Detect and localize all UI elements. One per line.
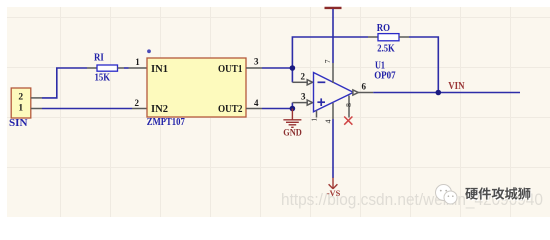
wire node B to pin3 jog — [291, 103, 293, 109]
svg-text:15K: 15K — [95, 73, 111, 84]
svg-text:8: 8 — [344, 103, 353, 107]
pin stub U1.6 output — [353, 90, 373, 95]
no-ERC marker X pin8 — [344, 117, 352, 125]
pin stub U1.3 — [292, 100, 312, 105]
svg-text:6: 6 — [362, 81, 367, 91]
wire OUT1 to node A — [262, 67, 292, 69]
svg-text:RI: RI — [94, 53, 104, 64]
pin stub ZMPT pin4 — [246, 108, 262, 110]
wire OUT2 to node B — [262, 108, 292, 110]
svg-text:1: 1 — [310, 118, 319, 122]
pin stub P1.1 — [31, 108, 42, 110]
designator marker * — [147, 49, 151, 53]
pin stub ZMPT pin2 — [132, 108, 147, 110]
transformer U2 ZMPT107 — [147, 58, 246, 117]
svg-text:1: 1 — [135, 57, 140, 67]
op-amp U1 OP07 — [314, 73, 354, 112]
svg-text:1: 1 — [18, 104, 23, 114]
pin stub ZMPT pin1 — [129, 67, 148, 69]
wire feedback up — [292, 37, 368, 68]
svg-text:2.5K: 2.5K — [377, 44, 395, 55]
pin stub U1.1 — [316, 110, 318, 117]
svg-text:2: 2 — [18, 93, 23, 103]
svg-text:ZMPT107: ZMPT107 — [147, 117, 185, 128]
logo 硬件攻城狮 icon — [436, 185, 458, 205]
svg-text:IN2: IN2 — [151, 104, 168, 115]
junction node B — [290, 106, 296, 112]
svg-text:OUT1: OUT1 — [218, 64, 243, 75]
pin stub U1.8 — [348, 96, 350, 118]
wire output to VIN — [373, 92, 520, 94]
power +VS bar — [325, 7, 342, 9]
pin stub U1.4 — [332, 103, 334, 119]
wire node A to pin2 jog — [291, 68, 293, 82]
junction node A — [290, 65, 296, 71]
junction VIN node — [436, 90, 442, 96]
pin stub P1.2 — [31, 97, 42, 99]
svg-text:4: 4 — [254, 98, 259, 108]
wire pin4 to -VS — [332, 119, 334, 178]
svg-text:RO: RO — [377, 23, 390, 34]
svg-text:2: 2 — [301, 71, 306, 81]
resistor RI — [87, 65, 124, 71]
svg-text:OP07: OP07 — [374, 70, 395, 81]
connector P1 — [11, 88, 31, 118]
pin stub U1.2 — [292, 80, 312, 85]
resistor RO — [368, 34, 409, 41]
svg-text:7: 7 — [323, 59, 332, 63]
svg-text:3: 3 — [254, 57, 259, 67]
svg-text:-VS: -VS — [327, 188, 341, 198]
svg-text:3: 3 — [301, 92, 306, 102]
watermark brand text — [466, 188, 531, 201]
svg-text:IN1: IN1 — [151, 64, 168, 75]
pin stub ZMPT pin3 — [246, 67, 262, 69]
svg-text:OUT2: OUT2 — [218, 104, 243, 115]
svg-text:VIN: VIN — [448, 81, 465, 92]
power -VS bar — [329, 178, 338, 189]
wire RI to U2 pin1 — [124, 67, 129, 69]
svg-text:SIN: SIN — [9, 118, 28, 129]
wire +VS to pin7 — [332, 9, 334, 63]
svg-text:GND: GND — [283, 128, 302, 138]
wire P1.1 to ZMPT pin2 — [42, 108, 132, 110]
ground symbol GND — [283, 109, 301, 128]
wire RO to VIN node — [409, 37, 438, 93]
svg-text:4: 4 — [324, 119, 333, 123]
svg-text:2: 2 — [135, 98, 140, 108]
wire P1.2 to RI — [42, 68, 87, 98]
pin stub U1.7 — [332, 63, 334, 83]
